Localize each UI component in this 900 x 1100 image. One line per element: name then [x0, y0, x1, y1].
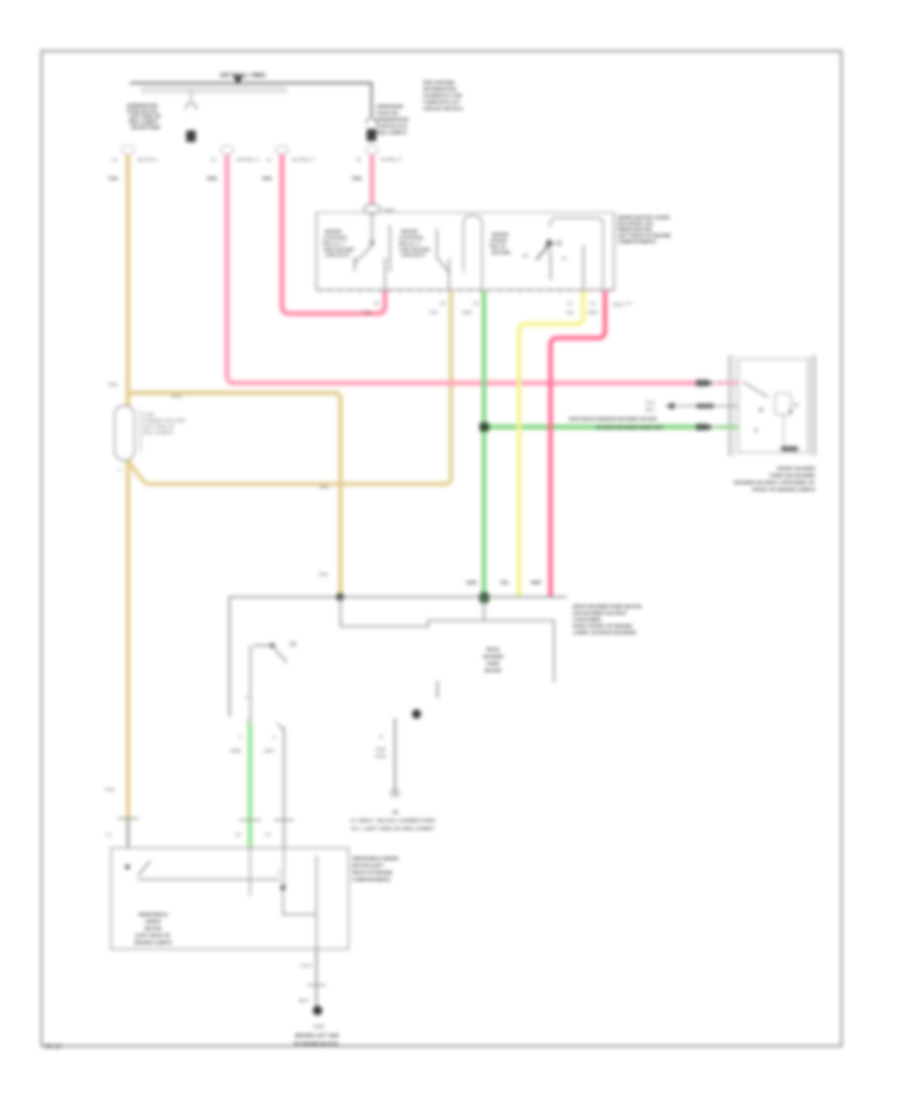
label HOT AT ALL TIMES — [220, 73, 266, 79]
svg-text:S306: S306 — [383, 208, 394, 213]
svg-text:MOTOR (LEFT: MOTOR (LEFT — [352, 863, 384, 868]
note block top right — [423, 80, 463, 111]
svg-text:FUSE BLOCK,: FUSE BLOCK, — [127, 109, 159, 114]
svg-text:C2: C2 — [567, 301, 573, 306]
svg-text:P: P — [278, 870, 281, 875]
svg-text:C2: C2 — [473, 301, 479, 306]
pin labels row — [112, 157, 402, 162]
svg-text:8 BLK: 8 BLK — [375, 754, 387, 759]
svg-text:CONNECTOR (TOP: CONNECTOR (TOP — [143, 418, 186, 423]
inline connector C100 oval — [115, 406, 141, 461]
svg-text:WIPER MOTOR,: WIPER MOTOR, — [618, 227, 653, 232]
wiper motor cover module box U1 — [317, 213, 615, 291]
svg-text:C1: C1 — [266, 157, 272, 162]
rear washer switch SW2 — [245, 642, 295, 724]
splice S341 label — [171, 394, 183, 400]
svg-text:WIPER: WIPER — [145, 919, 161, 924]
labels GRN rear washer — [230, 735, 261, 838]
svg-text:ENGINE COMPT): ENGINE COMPT) — [134, 940, 171, 945]
svg-text:(LEFT REAR OF: (LEFT REAR OF — [136, 933, 171, 938]
svg-text:MOTOR: MOTOR — [144, 926, 162, 931]
splice S306 on module — [364, 204, 394, 214]
svg-text:SEE GROUND: SEE GROUND — [423, 80, 455, 85]
fuse tap arrow at bus — [233, 76, 243, 85]
connector C2 tick on tan wire — [106, 819, 139, 849]
svg-text:A: A — [118, 467, 122, 472]
svg-text:LEFT REAR OF ENGINE: LEFT REAR OF ENGINE — [618, 233, 671, 238]
svg-text:PNK: PNK — [363, 310, 372, 315]
svg-text:92 PNK .8: 92 PNK .8 — [381, 157, 402, 162]
label TAN mid left — [108, 382, 118, 388]
relay K3 coil text block — [490, 232, 511, 255]
svg-text:85: 85 — [523, 253, 528, 258]
fuse F1 WPR/WSHR — [186, 90, 197, 142]
jumper loop J1 — [464, 216, 483, 291]
svg-text:(BEHIND LEFT SIDE: (BEHIND LEFT SIDE — [295, 1033, 339, 1038]
svg-text:CONTROL: CONTROL — [399, 235, 424, 240]
svg-text:AND BOARD: AND BOARD — [399, 247, 431, 252]
green drop to stepped wire — [483, 597, 485, 621]
module pin wire yellow stub — [583, 245, 585, 290]
svg-text:HOT AT ALL TIMES: HOT AT ALL TIMES — [220, 73, 266, 79]
svg-text:B: B — [380, 734, 383, 739]
svg-text:140 PNK .8: 140 PNK .8 — [236, 157, 259, 162]
svg-text:GRY: GRY — [264, 749, 275, 755]
washer pump motor symbol — [743, 382, 798, 451]
label fuse F2 WPR 25A — [377, 104, 410, 135]
svg-text:C1: C1 — [112, 157, 118, 162]
svg-text:CONTROL: CONTROL — [323, 235, 348, 240]
svg-text:WINDSHIELD: WINDSHIELD — [138, 912, 168, 917]
svg-text:DISTRIBUTION: DISTRIBUTION — [423, 87, 457, 92]
svg-text:RELAY 2: RELAY 2 — [399, 241, 420, 246]
svg-text:FRONT OF ENGINE COMPT): FRONT OF ENGINE COMPT) — [752, 487, 815, 492]
svg-text:CIRCUITS: CIRCUITS — [325, 253, 350, 258]
svg-text:LEFT SIDE OF: LEFT SIDE OF — [129, 114, 161, 119]
label rear washer pump — [573, 604, 642, 635]
svg-text:RELAY: RELAY — [490, 244, 507, 249]
svg-text:REAR OF ENGINE: REAR OF ENGINE — [352, 870, 392, 875]
jumper loop J2 — [550, 218, 603, 290]
label washer pump right of box — [352, 856, 399, 882]
pin stub line — [437, 681, 439, 698]
svg-text:S341: S341 — [171, 394, 183, 400]
svg-text:TAN: TAN — [108, 176, 118, 182]
svg-text:RIGHT FRONT OF ENGINE: RIGHT FRONT OF ENGINE — [573, 624, 632, 629]
svg-text:CIRCUITS: CIRCUITS — [401, 253, 426, 258]
connector C1 pin B (pnk) — [221, 146, 233, 155]
svg-text:PUMP (ON WASHER: PUMP (ON WASHER — [770, 473, 816, 478]
svg-text:TAN: TAN — [319, 485, 329, 491]
svg-text:87: 87 — [562, 256, 567, 261]
svg-text:C1: C1 — [106, 832, 112, 837]
svg-text:UNDERHOOD: UNDERHOOD — [127, 103, 158, 108]
label wiper motor cover — [618, 215, 671, 244]
label connector C100 — [118, 412, 186, 472]
svg-text:50-10: 50-10 — [45, 1044, 62, 1051]
wire to C305 connector — [375, 718, 400, 796]
wiper motor internal switch — [125, 848, 316, 949]
junction dot green tee — [480, 423, 490, 432]
svg-text:ON BATTERY: ON BATTERY — [131, 125, 162, 130]
wire PNK A vertical to washer pump — [227, 155, 698, 384]
svg-text:WIPER: WIPER — [325, 229, 342, 234]
wire RED vertical — [551, 291, 606, 597]
svg-text:PUMP: PUMP — [486, 661, 499, 666]
connector C2 pin D (pnk) — [366, 146, 378, 155]
svg-text:RED: RED — [531, 580, 542, 586]
svg-text:YEL: YEL — [500, 580, 510, 586]
svg-text:WASHER: WASHER — [483, 654, 504, 659]
module pin labels below box — [363, 301, 632, 315]
svg-text:2: 2 — [239, 735, 242, 740]
svg-text:NCA: NCA — [646, 400, 655, 405]
wire TAN lower branch horizontal — [128, 292, 451, 484]
svg-text:C2: C2 — [265, 832, 271, 837]
svg-text:REAR WASHER PUMP MOTOR: REAR WASHER PUMP MOTOR — [573, 604, 642, 609]
svg-text:C2: C2 — [590, 301, 596, 306]
wire PNK B vertical — [282, 155, 385, 314]
label TAN on lower branch — [319, 485, 329, 491]
arrow into washer pump row1 — [696, 380, 739, 386]
svg-text:WIPER: WIPER — [492, 232, 509, 237]
wire GRN horizontal to washer pump — [484, 425, 696, 429]
svg-text:PNK: PNK — [262, 176, 273, 182]
svg-text:AND BOARD: AND BOARD — [323, 247, 355, 252]
arrow into washer pump row3 — [696, 424, 739, 430]
label underhood fuse block — [127, 103, 162, 130]
svg-text:CIRCUIT DETAILS: CIRCUIT DETAILS — [423, 106, 463, 111]
ground G305 — [313, 1006, 325, 1029]
svg-text:FRONT WASHER: FRONT WASHER — [777, 466, 816, 471]
wire YEL vertical — [519, 291, 584, 597]
washer pump box M1 — [730, 355, 815, 456]
svg-text:M: M — [794, 403, 798, 409]
svg-text:141 PNK .8: 141 PNK .8 — [291, 157, 314, 162]
svg-text:S311: S311 — [613, 302, 623, 307]
svg-text:SCHEMATIC FOR: SCHEMATIC FOR — [423, 93, 462, 98]
svg-text:COMPARTMENT): COMPARTMENT) — [352, 877, 391, 882]
stepped wire below bus — [341, 597, 555, 682]
svg-text:C2: C2 — [235, 832, 241, 837]
svg-text:C2: C2 — [374, 301, 380, 306]
svg-text:A BLK: A BLK — [299, 963, 313, 968]
svg-text:GRN: GRN — [230, 749, 241, 755]
svg-text:(UNDERHOOD: (UNDERHOOD — [377, 117, 410, 122]
svg-text:TAN: TAN — [105, 787, 115, 793]
svg-text:GRN: GRN — [462, 310, 472, 315]
svg-text:C2: C2 — [440, 301, 446, 306]
label rear washer motor center — [483, 647, 504, 673]
connector C1 pin A (tan) — [122, 146, 134, 155]
splice dot S340 — [412, 709, 421, 718]
svg-text:C100: C100 — [143, 412, 155, 417]
svg-text:3: 3 — [273, 735, 276, 740]
svg-text:BLK: BLK — [299, 998, 309, 1004]
svg-text:WASHER SOLVENT CONTAINER, RT: WASHER SOLVENT CONTAINER, RT — [734, 480, 815, 485]
svg-text:REAR: REAR — [486, 647, 500, 652]
svg-text:BOARD: BOARD — [492, 250, 511, 255]
arrow out row2 washer pump — [646, 400, 739, 412]
wire labels above lower bus — [466, 580, 542, 586]
svg-text:LT GRAY / BLACK CONNECTORS: LT GRAY / BLACK CONNECTORS — [351, 818, 436, 823]
svg-text:FUSE 25A: FUSE 25A — [377, 111, 400, 116]
svg-text:TAN: TAN — [429, 310, 437, 315]
relay K2 contact — [437, 229, 450, 291]
svg-text:COMPLETE CKT: COMPLETE CKT — [423, 100, 460, 105]
svg-text:C: C — [245, 695, 248, 700]
svg-text:COMPARTMENT): COMPARTMENT) — [618, 239, 657, 244]
svg-text:W/ REAR WASHER PUMP MTR: W/ REAR WASHER PUMP MTR — [596, 425, 664, 430]
svg-text:C2 = LEFT SIDE OF ENG COMPT: C2 = LEFT SIDE OF ENG COMPT — [351, 826, 435, 831]
svg-text:LEFT SIDE OF: LEFT SIDE OF — [143, 424, 175, 429]
label with rear window washer — [569, 417, 664, 431]
wire color labels row — [108, 176, 363, 182]
svg-text:TAN: TAN — [318, 572, 328, 578]
svg-text:PNK: PNK — [352, 176, 363, 182]
svg-text:PNK: PNK — [207, 176, 218, 182]
wire TAN branch upper horizontal — [128, 393, 341, 597]
lower bus wire — [230, 597, 568, 717]
svg-text:ENG COMPT): ENG COMPT) — [377, 130, 407, 135]
svg-text:FUSE BLOCK,: FUSE BLOCK, — [377, 124, 409, 129]
label front washer pump — [734, 466, 816, 492]
svg-text:(ON FRONT OF): (ON FRONT OF) — [618, 221, 654, 226]
svg-text:440 TAN 1: 440 TAN 1 — [137, 157, 158, 162]
relay K2 coil text block — [399, 229, 431, 258]
svg-text:WIPER MOTOR COVER: WIPER MOTOR COVER — [618, 215, 671, 220]
svg-text:RED: RED — [588, 310, 597, 315]
wire GRY rear washer switch out — [264, 723, 294, 848]
svg-text:GRN: GRN — [466, 580, 477, 586]
wire BLK ground drop — [299, 949, 326, 1008]
wire GRN rear washer — [248, 723, 253, 848]
wire GRN main vertical — [482, 291, 487, 597]
fuse block bus bar B+ — [130, 83, 372, 117]
junction dots on lower bus — [337, 593, 490, 604]
connector C1 pin C (pnk) — [276, 146, 288, 155]
svg-text:G305: G305 — [313, 1024, 325, 1029]
svg-text:COMPT, W/ REAR WASHER): COMPT, W/ REAR WASHER) — [573, 630, 636, 635]
svg-text:SPEED: SPEED — [490, 238, 508, 243]
svg-text:ENG COMPT): ENG COMPT) — [143, 430, 173, 435]
svg-text:ENG COMPT,: ENG COMPT, — [129, 120, 158, 125]
svg-text:WITH REAR WINDOW WASHER OPTION: WITH REAR WINDOW WASHER OPTION — [569, 417, 657, 422]
label TAN lower left — [105, 787, 115, 793]
svg-text:YEL: YEL — [566, 310, 575, 315]
relay K1 coil text block — [323, 229, 355, 258]
svg-text:TAN: TAN — [108, 382, 118, 388]
svg-text:A6: A6 — [392, 810, 398, 815]
svg-text:C1: C1 — [211, 157, 217, 162]
svg-text:RELAY 1: RELAY 1 — [323, 241, 344, 246]
relay K1 contact — [355, 214, 391, 291]
windshield wiper motor box M2 — [111, 848, 349, 949]
wire PNK feed from fuse F2 — [370, 155, 375, 206]
svg-text:C305: C305 — [375, 747, 386, 752]
svg-text:OF ENGINE BLOCK): OF ENGINE BLOCK) — [294, 1041, 339, 1046]
svg-text:WINDSHIELD WIPER: WINDSHIELD WIPER — [352, 856, 399, 861]
svg-text:WIPER: WIPER — [401, 229, 418, 234]
svg-text:(ON WASHER SOLVENT: (ON WASHER SOLVENT — [573, 611, 627, 616]
note label C2 connector colors — [351, 810, 436, 832]
label windshield wiper motor — [134, 912, 171, 945]
svg-text:C2: C2 — [356, 157, 362, 162]
fuse F2 WPR column — [366, 118, 377, 141]
relay K3 contact — [523, 239, 567, 281]
svg-text:CONTAINER,: CONTAINER, — [573, 617, 602, 622]
svg-text:B23: B23 — [646, 407, 654, 412]
wire TAN main vertical — [126, 155, 131, 820]
svg-text:MOTOR: MOTOR — [484, 668, 502, 673]
label TAN on branch vertical — [318, 572, 328, 578]
label ground location — [294, 1033, 339, 1046]
svg-text:WPR/WSHR: WPR/WSHR — [377, 104, 404, 109]
